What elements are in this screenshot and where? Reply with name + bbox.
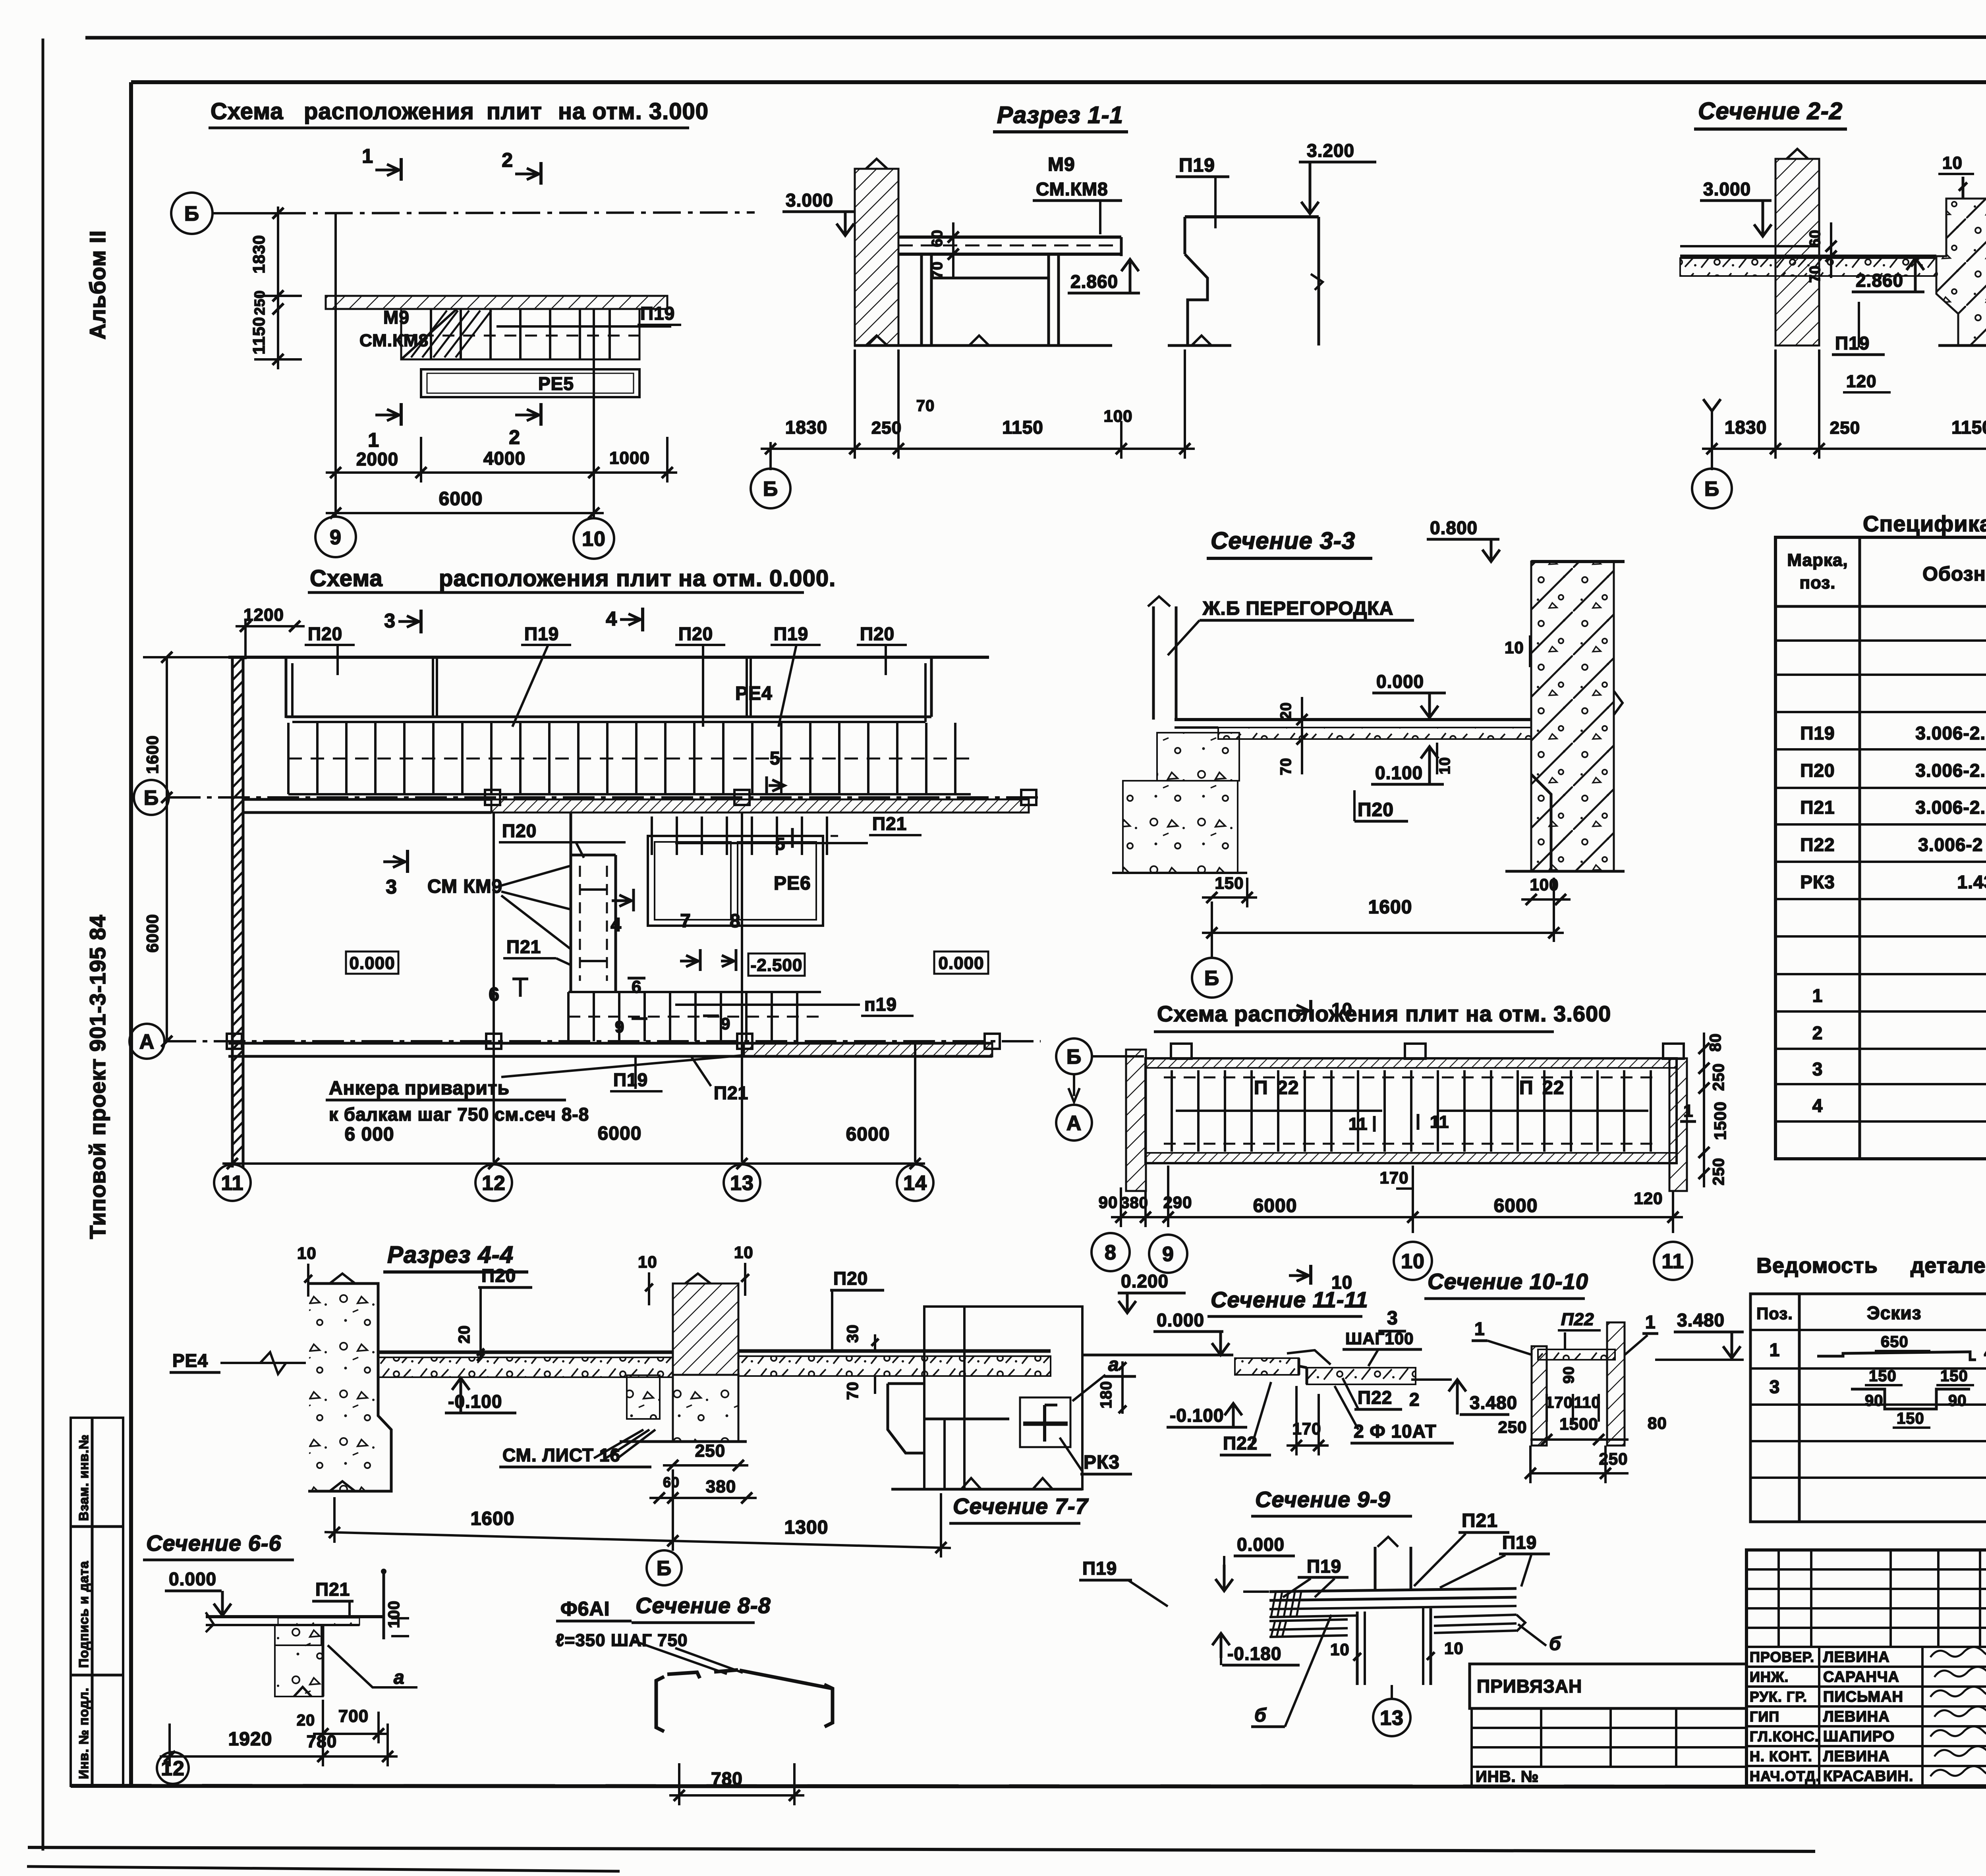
svg-text:П22: П22 — [1561, 1310, 1594, 1329]
svg-text:П20: П20 — [1800, 760, 1835, 781]
svg-text:1920: 1920 — [228, 1729, 272, 1750]
svg-text:деталей: деталей — [1911, 1254, 1986, 1278]
svg-text:20: 20 — [456, 1325, 473, 1344]
svg-text:Б: Б — [1204, 967, 1219, 990]
svg-text:150: 150 — [1940, 1367, 1968, 1385]
svg-text:П19: П19 — [640, 303, 675, 324]
svg-text:П20: П20 — [833, 1268, 868, 1289]
svg-text:250: 250 — [1498, 1418, 1527, 1436]
svg-text:3: 3 — [1812, 1059, 1823, 1079]
svg-text:22: 22 — [1277, 1077, 1299, 1098]
svg-text:70: 70 — [1278, 758, 1294, 775]
svg-text:120: 120 — [1846, 372, 1876, 391]
svg-text:100: 100 — [1103, 407, 1132, 425]
svg-text:11: 11 — [1348, 1114, 1368, 1134]
svg-text:250: 250 — [1599, 1449, 1628, 1468]
svg-text:0.000: 0.000 — [169, 1569, 216, 1589]
svg-text:Сечение 10-10: Сечение 10-10 — [1428, 1269, 1588, 1294]
svg-text:4000: 4000 — [483, 448, 525, 469]
svg-text:ЛЕВИНА: ЛЕВИНА — [1823, 1649, 1890, 1666]
svg-text:ШАГ100: ШАГ100 — [1345, 1329, 1414, 1348]
svg-text:П19: П19 — [1307, 1556, 1341, 1577]
svg-text:3: 3 — [1387, 1308, 1398, 1329]
svg-text:П21: П21 — [315, 1579, 350, 1600]
svg-text:Разрез 4-4: Разрез 4-4 — [387, 1241, 514, 1268]
svg-text:ПРИВЯЗАН: ПРИВЯЗАН — [1477, 1676, 1582, 1697]
svg-text:б: б — [1254, 1705, 1267, 1726]
svg-text:10: 10 — [1401, 1250, 1425, 1273]
svg-text:ГЛ.КОНС.: ГЛ.КОНС. — [1750, 1728, 1819, 1745]
svg-text:П: П — [1254, 1077, 1268, 1098]
svg-text:6000: 6000 — [143, 914, 162, 952]
svg-text:1000: 1000 — [609, 448, 650, 468]
svg-text:РК3: РК3 — [1800, 872, 1835, 892]
svg-text:1600: 1600 — [1368, 897, 1412, 918]
svg-text:6000: 6000 — [598, 1123, 642, 1144]
svg-text:13: 13 — [730, 1172, 754, 1195]
svg-text:250: 250 — [695, 1441, 725, 1461]
svg-text:780: 780 — [711, 1768, 743, 1789]
svg-text:5: 5 — [775, 834, 785, 854]
svg-text:П21: П21 — [506, 936, 541, 957]
svg-text:6000: 6000 — [1494, 1195, 1538, 1216]
svg-text:2.860: 2.860 — [1856, 270, 1903, 291]
svg-text:110: 110 — [1574, 1394, 1601, 1411]
svg-text:Б: Б — [184, 203, 199, 226]
svg-text:на отм. 3.000: на отм. 3.000 — [558, 98, 709, 124]
svg-text:ИНВ. №: ИНВ. № — [1476, 1768, 1539, 1785]
svg-text:П22: П22 — [1358, 1387, 1392, 1408]
svg-text:1: 1 — [368, 429, 379, 451]
svg-text:10: 10 — [1437, 757, 1453, 774]
svg-text:Инв. № подл.: Инв. № подл. — [76, 1687, 91, 1779]
svg-text:Н. КОНТ.: Н. КОНТ. — [1750, 1748, 1812, 1764]
svg-text:60: 60 — [1807, 230, 1824, 247]
svg-text:90: 90 — [1099, 1193, 1118, 1212]
svg-text:Ведомость: Ведомость — [1756, 1254, 1878, 1278]
svg-text:П19: П19 — [774, 623, 808, 644]
svg-text:Б: Б — [1066, 1046, 1082, 1069]
svg-text:3: 3 — [386, 876, 397, 898]
svg-text:90: 90 — [1865, 1392, 1884, 1409]
svg-text:Разрез 1-1: Разрез 1-1 — [997, 102, 1123, 128]
svg-text:Обозначение: Обозначение — [1922, 563, 1986, 585]
svg-text:РЕ4: РЕ4 — [735, 683, 773, 704]
svg-text:6000: 6000 — [846, 1124, 890, 1145]
svg-text:Анкера приварить: Анкера приварить — [329, 1078, 510, 1099]
svg-text:3.000: 3.000 — [786, 190, 833, 210]
svg-text:САРАНЧА: САРАНЧА — [1823, 1669, 1899, 1685]
svg-text:1830: 1830 — [1725, 417, 1767, 438]
svg-text:170: 170 — [1379, 1168, 1408, 1187]
svg-text:ЛЕВИНА: ЛЕВИНА — [1823, 1748, 1890, 1765]
svg-text:6 000: 6 000 — [344, 1124, 394, 1145]
svg-text:П20: П20 — [502, 820, 537, 841]
svg-text:9: 9 — [721, 1014, 730, 1033]
svg-text:80: 80 — [1648, 1414, 1667, 1432]
svg-text:Эскиз: Эскиз — [1867, 1303, 1921, 1323]
svg-text:ПИСЬМАН: ПИСЬМАН — [1823, 1689, 1903, 1705]
svg-text:250: 250 — [1830, 418, 1860, 438]
svg-text:П19: П19 — [1082, 1558, 1117, 1579]
svg-text:1: 1 — [1770, 1339, 1780, 1360]
svg-text:1.439-2: 1.439-2 — [1957, 872, 1986, 892]
svg-text:ГИП: ГИП — [1750, 1708, 1779, 1725]
svg-text:3.480: 3.480 — [1470, 1392, 1517, 1413]
svg-text:Схема расположения плит на: Схема расположения плит на отм. 3.600 — [1157, 1001, 1611, 1026]
svg-text:КРАСАВИН.: КРАСАВИН. — [1823, 1768, 1913, 1785]
svg-text:4: 4 — [1812, 1095, 1823, 1116]
svg-text:РЕ5: РЕ5 — [538, 373, 574, 394]
svg-text:2: 2 — [502, 149, 513, 171]
svg-text:22: 22 — [1542, 1077, 1564, 1098]
svg-text:380: 380 — [706, 1477, 736, 1496]
svg-text:250: 250 — [1710, 1158, 1727, 1185]
svg-text:П21: П21 — [872, 813, 907, 834]
svg-text:Взам. инв.№: Взам. инв.№ — [76, 1434, 91, 1521]
svg-text:170: 170 — [1545, 1394, 1573, 1411]
svg-text:СМ КМ9: СМ КМ9 — [427, 876, 502, 897]
svg-text:10: 10 — [734, 1243, 753, 1262]
svg-text:6000: 6000 — [1253, 1195, 1297, 1216]
svg-text:П21: П21 — [714, 1083, 748, 1103]
svg-text:а: а — [394, 1667, 405, 1688]
svg-text:ЛЕВИНА: ЛЕВИНА — [1823, 1708, 1890, 1725]
svg-text:НАЧ.ОТД.: НАЧ.ОТД. — [1750, 1768, 1820, 1784]
svg-text:150: 150 — [1215, 874, 1244, 892]
svg-text:-0.180: -0.180 — [1227, 1643, 1281, 1664]
svg-text:4: 4 — [606, 608, 617, 630]
svg-text:Альбом II: Альбом II — [85, 230, 110, 340]
svg-text:9: 9 — [615, 1017, 624, 1036]
svg-text:10: 10 — [1942, 153, 1963, 173]
svg-text:11: 11 — [221, 1172, 244, 1195]
svg-text:к балкам шаг 750 см.сеч 8-8: к балкам шаг 750 см.сеч 8-8 — [329, 1104, 589, 1125]
svg-text:10: 10 — [1331, 999, 1352, 1020]
svg-text:Сечение 6-6: Сечение 6-6 — [146, 1531, 282, 1556]
svg-text:расположения плит на отм.: расположения плит на отм. 0.000. — [439, 566, 836, 591]
svg-text:2.860: 2.860 — [1070, 271, 1118, 292]
svg-text:20: 20 — [297, 1712, 315, 1729]
svg-text:70: 70 — [844, 1382, 862, 1400]
svg-text:1300: 1300 — [784, 1517, 829, 1538]
svg-text:1150: 1150 — [1951, 417, 1986, 438]
svg-text:250: 250 — [251, 290, 268, 315]
svg-text:150: 150 — [1897, 1410, 1924, 1427]
svg-text:9: 9 — [330, 526, 342, 549]
svg-text:3.480: 3.480 — [1677, 1310, 1725, 1330]
svg-text:13: 13 — [1380, 1707, 1404, 1730]
svg-text:Сечение 3-3: Сечение 3-3 — [1211, 527, 1355, 554]
svg-text:а: а — [1108, 1354, 1119, 1375]
svg-text:0.000: 0.000 — [1376, 671, 1424, 692]
svg-text:П19: П19 — [1835, 333, 1870, 353]
svg-text:10: 10 — [582, 528, 606, 551]
svg-text:-2.500: -2.500 — [751, 955, 803, 975]
svg-text:П20: П20 — [1358, 799, 1394, 820]
svg-text:10: 10 — [638, 1253, 657, 1271]
svg-text:7: 7 — [680, 911, 691, 932]
svg-text:0.000: 0.000 — [1237, 1534, 1285, 1555]
svg-text:0.000: 0.000 — [349, 953, 395, 973]
svg-text:650: 650 — [1881, 1333, 1909, 1351]
svg-text:2: 2 — [1409, 1389, 1420, 1410]
svg-text:Спецификация: Спецификация — [1863, 511, 1986, 536]
svg-text:14: 14 — [903, 1172, 927, 1195]
svg-text:П20: П20 — [308, 623, 342, 644]
svg-text:Сечение 11-11: Сечение 11-11 — [1211, 1287, 1368, 1312]
svg-text:П19: П19 — [1800, 723, 1835, 743]
svg-text:Б: Б — [144, 787, 159, 810]
svg-text:поз.: поз. — [1800, 573, 1836, 593]
svg-text:3: 3 — [1770, 1376, 1780, 1397]
svg-text:СМ.КМ8: СМ.КМ8 — [359, 331, 429, 350]
svg-text:РЕ4: РЕ4 — [172, 1350, 208, 1371]
svg-text:3.000: 3.000 — [1703, 179, 1751, 199]
svg-text:400: 400 — [1984, 1344, 1986, 1362]
svg-text:1: 1 — [362, 145, 373, 167]
svg-text:П20: П20 — [481, 1265, 516, 1286]
svg-text:250: 250 — [871, 418, 902, 438]
svg-text:8: 8 — [1105, 1241, 1117, 1264]
svg-text:СМ. ЛИСТ 16: СМ. ЛИСТ 16 — [502, 1445, 620, 1465]
svg-text:180: 180 — [1097, 1381, 1115, 1409]
svg-text:380: 380 — [1121, 1194, 1148, 1212]
svg-text:РУК. ГР.: РУК. ГР. — [1750, 1689, 1807, 1705]
svg-text:3.200: 3.200 — [1307, 140, 1354, 161]
svg-text:10: 10 — [1444, 1639, 1464, 1658]
svg-text:2 Ф 10АТ: 2 Ф 10АТ — [1354, 1421, 1437, 1442]
svg-text:10: 10 — [297, 1244, 317, 1262]
svg-text:1: 1 — [1812, 985, 1823, 1006]
svg-text:0.800: 0.800 — [1430, 517, 1478, 538]
svg-text:П: П — [1519, 1077, 1534, 1098]
svg-text:0.100: 0.100 — [1375, 762, 1423, 783]
svg-text:П19: П19 — [613, 1069, 648, 1090]
svg-text:Сечение 2-2: Сечение 2-2 — [1698, 98, 1843, 124]
svg-text:70: 70 — [1807, 265, 1824, 283]
svg-text:9: 9 — [1162, 1243, 1174, 1266]
svg-text:Поз.: Поз. — [1756, 1304, 1793, 1323]
svg-text:90: 90 — [1561, 1366, 1577, 1384]
svg-text:-0.100: -0.100 — [1170, 1405, 1224, 1426]
svg-text:70: 70 — [916, 397, 935, 415]
svg-text:90: 90 — [1948, 1392, 1967, 1409]
svg-text:1830: 1830 — [785, 417, 827, 438]
svg-text:Марка,: Марка, — [1787, 550, 1848, 570]
svg-text:М9: М9 — [383, 307, 410, 328]
svg-text:12: 12 — [482, 1172, 506, 1195]
svg-text:1: 1 — [1474, 1318, 1485, 1339]
svg-text:1500: 1500 — [1559, 1415, 1598, 1433]
svg-text:ШАПИРО: ШАПИРО — [1823, 1728, 1895, 1745]
svg-text:3.006-2. вып II-2: 3.006-2. вып II-2 — [1915, 723, 1986, 743]
svg-text:12: 12 — [161, 1757, 185, 1780]
svg-text:Сечение 9-9: Сечение 9-9 — [1255, 1487, 1391, 1512]
svg-text:Схема: Схема — [211, 98, 284, 124]
svg-text:ИНЖ.: ИНЖ. — [1750, 1669, 1789, 1685]
svg-text:30: 30 — [844, 1324, 862, 1343]
svg-text:П19: П19 — [1502, 1532, 1537, 1553]
svg-text:Б: Б — [763, 478, 778, 501]
svg-text:150: 150 — [1869, 1367, 1897, 1385]
svg-text:2: 2 — [1812, 1023, 1823, 1043]
svg-text:20: 20 — [1278, 702, 1294, 720]
svg-text:Подпись и дата: Подпись и дата — [76, 1561, 91, 1668]
svg-text:2000: 2000 — [356, 449, 398, 469]
svg-text:3.006-2 вып II-2: 3.006-2 вып II-2 — [1918, 834, 1986, 855]
svg-text:П21: П21 — [1462, 1510, 1498, 1531]
svg-text:4: 4 — [610, 915, 622, 936]
svg-text:700: 700 — [338, 1706, 369, 1726]
svg-text:Б: Б — [657, 1557, 672, 1580]
svg-text:3.006-2. вып II-2: 3.006-2. вып II-2 — [1915, 760, 1986, 781]
svg-text:1150: 1150 — [1002, 417, 1043, 438]
svg-text:6: 6 — [632, 977, 641, 997]
svg-text:РК3: РК3 — [1084, 1452, 1120, 1473]
svg-text:-0.100: -0.100 — [448, 1391, 502, 1412]
svg-text:А: А — [139, 1031, 155, 1054]
svg-text:1500: 1500 — [1711, 1101, 1729, 1140]
svg-text:0.200: 0.200 — [1121, 1271, 1169, 1291]
svg-text:3: 3 — [384, 610, 396, 632]
svg-text:8: 8 — [730, 911, 741, 932]
svg-text:0.000: 0.000 — [1157, 1310, 1204, 1330]
svg-text:П20: П20 — [860, 623, 894, 644]
svg-text:1600: 1600 — [143, 735, 162, 774]
svg-text:П21: П21 — [1800, 797, 1835, 818]
svg-text:1600: 1600 — [471, 1508, 515, 1529]
svg-text:5: 5 — [770, 748, 780, 768]
svg-text:плит: плит — [487, 98, 542, 124]
svg-text:250: 250 — [1710, 1063, 1727, 1091]
svg-text:Ф6АI: Ф6АI — [560, 1598, 610, 1620]
svg-text:п19: п19 — [864, 994, 897, 1015]
svg-text:11: 11 — [1430, 1112, 1449, 1132]
svg-text:расположения: расположения — [304, 98, 474, 124]
svg-text:1150: 1150 — [249, 317, 268, 354]
svg-text:Ж.Б ПЕРЕГОРОДКА: Ж.Б ПЕРЕГОРОДКА — [1202, 598, 1393, 619]
svg-text:10: 10 — [1330, 1640, 1350, 1659]
svg-text:80: 80 — [1707, 1033, 1724, 1052]
svg-text:1: 1 — [1645, 1312, 1656, 1332]
svg-text:СМ.КМ8: СМ.КМ8 — [1036, 179, 1108, 199]
svg-text:б: б — [1549, 1633, 1561, 1654]
svg-text:10: 10 — [1505, 638, 1524, 657]
svg-text:П20: П20 — [678, 623, 713, 644]
svg-text:Типовой проект 901-3-195 84: Типовой проект 901-3-195 84 — [85, 915, 110, 1239]
svg-text:11: 11 — [1662, 1250, 1685, 1273]
svg-text:0.000: 0.000 — [938, 953, 984, 973]
svg-text:1: 1 — [1683, 1101, 1693, 1121]
svg-text:ПРОВЕР.: ПРОВЕР. — [1750, 1649, 1814, 1665]
svg-text:РЕ6: РЕ6 — [774, 873, 811, 894]
svg-text:70: 70 — [929, 261, 946, 279]
svg-text:П19: П19 — [524, 623, 559, 644]
svg-text:А: А — [1066, 1112, 1082, 1135]
svg-text:ℓ=350 ШАГ 750: ℓ=350 ШАГ 750 — [556, 1631, 688, 1650]
svg-text:Сечение 8-8: Сечение 8-8 — [636, 1593, 771, 1618]
svg-text:Схема: Схема — [310, 566, 383, 591]
svg-text:60: 60 — [663, 1474, 680, 1490]
svg-text:60: 60 — [929, 230, 946, 247]
svg-text:Б: Б — [1704, 478, 1719, 501]
svg-text:М9: М9 — [1048, 154, 1075, 175]
svg-text:100: 100 — [385, 1600, 403, 1628]
svg-text:120: 120 — [1634, 1189, 1663, 1208]
svg-text:1830: 1830 — [249, 235, 268, 273]
svg-text:3.006-2. вып II-2: 3.006-2. вып II-2 — [1915, 797, 1986, 818]
svg-text:Сечение 7-7: Сечение 7-7 — [953, 1494, 1089, 1519]
svg-text:6000: 6000 — [439, 488, 483, 510]
svg-text:П19: П19 — [1179, 155, 1215, 176]
svg-text:П22: П22 — [1800, 834, 1835, 855]
svg-text:2: 2 — [509, 426, 520, 448]
